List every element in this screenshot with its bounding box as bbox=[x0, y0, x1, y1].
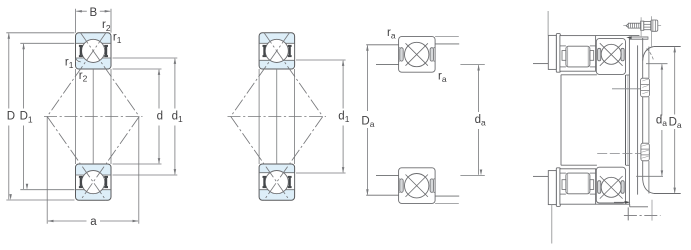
housing bore line top-right bbox=[435, 36, 459, 38]
cover spigot step bottom bbox=[629, 204, 631, 207]
lock nut bbox=[651, 20, 658, 31]
set screw thread tip bbox=[626, 24, 628, 28]
inner ring shoulder line top bbox=[259, 59, 295, 61]
inner ring recess arc (r2) top-left bbox=[76, 58, 81, 62]
shaft surface bottom bbox=[561, 164, 597, 166]
housing shoulder line top-right bbox=[435, 43, 459, 45]
dimension da extension lines bbox=[460, 64, 484, 66]
locating ring inner bottom bbox=[556, 168, 560, 207]
contact line left vertex to lower-right bbox=[231, 117, 290, 201]
inner ring shoulder line bottom bbox=[259, 172, 295, 174]
housing fillet arc bottom bbox=[643, 180, 654, 194]
svg-text:ra: ra bbox=[387, 27, 396, 41]
locating ring inner top bbox=[556, 34, 560, 73]
shaft shoulder line bottom-left bbox=[376, 174, 399, 176]
tapped hole centre line horizontal bbox=[624, 214, 661, 216]
dimension d1 extension lines bbox=[113, 57, 178, 59]
set screw head bbox=[644, 22, 651, 30]
housing face line bottom-left margin bbox=[533, 175, 549, 177]
cage capsule bottom-left bbox=[400, 179, 403, 192]
housing bore line bottom-right bbox=[435, 202, 459, 204]
outer ring shoulder line top bbox=[259, 42, 295, 44]
dimension da line with arrows bbox=[478, 65, 480, 112]
roller cage bars bottom bbox=[562, 180, 566, 190]
dimension d extension lines bbox=[113, 68, 162, 70]
slot arrow bottom bbox=[614, 201, 627, 203]
dimension a extension line right bbox=[138, 117, 140, 224]
contact line right vertex to lower-left bbox=[264, 117, 323, 201]
housing shoulder line bottom-right bbox=[435, 195, 459, 197]
dimension B line with arrows bbox=[76, 10, 87, 12]
set screw axis horizontal bbox=[623, 25, 661, 27]
dimension d1 line with arrows bbox=[174, 59, 176, 109]
cage capsule top-right bbox=[430, 48, 433, 61]
dimension d line with arrows bbox=[158, 70, 160, 109]
svg-text:d: d bbox=[157, 110, 163, 122]
bore silhouette line left bbox=[258, 69, 260, 164]
cage bottom-right bbox=[104, 176, 108, 188]
washer tab line top bbox=[547, 11, 549, 35]
raceway groove band top section bbox=[260, 43, 295, 60]
bore silhouette line right bbox=[294, 69, 296, 164]
dimension D line with arrows bbox=[8, 34, 10, 109]
svg-text:d1: d1 bbox=[338, 110, 349, 124]
inner ring split line bbox=[276, 69, 278, 164]
housing shoulder line top-left bbox=[366, 44, 398, 46]
set screw shank bbox=[628, 23, 640, 28]
outer ring top section (blue) bbox=[76, 33, 112, 69]
cage capsule top-left bbox=[400, 48, 403, 61]
cage top-right bbox=[104, 45, 108, 57]
cage bottom-left bbox=[79, 176, 83, 188]
housing bore line top bbox=[596, 35, 640, 37]
QJ cage capsules top bbox=[598, 48, 601, 61]
svg-text:r2: r2 bbox=[79, 70, 88, 84]
figure 1: bearing cross-section with dimensions bbox=[6, 7, 183, 228]
dimension B extension lines bbox=[75, 9, 77, 33]
cover mid wall upper bbox=[642, 38, 644, 78]
washer tab line bottom bbox=[551, 205, 553, 244]
inner ring split line bbox=[92, 69, 94, 164]
svg-text:d1: d1 bbox=[172, 110, 183, 124]
roller top bbox=[566, 46, 590, 67]
ball top with cross bbox=[406, 43, 428, 65]
dimension Da line with arrows bbox=[366, 46, 368, 112]
outer ring shoulder line top bbox=[76, 42, 112, 44]
da extension line bottom bbox=[636, 175, 663, 177]
roller end face lines bottom bbox=[567, 174, 569, 194]
shoulder ticks bottom section bbox=[399, 178, 400, 180]
clamp nut lower bbox=[641, 143, 649, 161]
roller bearing outline top bbox=[560, 36, 596, 72]
cage capsule bottom-right bbox=[430, 179, 433, 192]
da extension line top bbox=[646, 63, 668, 65]
set screw axis line upper bbox=[612, 88, 641, 90]
cover outer wall lower bbox=[648, 161, 650, 194]
cage bottom-left bbox=[263, 176, 267, 188]
cover inner face bbox=[637, 45, 639, 194]
contact line upper-left to left vertex bbox=[47, 33, 106, 117]
set screw axis line lower bbox=[597, 153, 650, 155]
ball top bbox=[82, 39, 105, 62]
dimension D1 extension lines bbox=[20, 42, 74, 44]
svg-text:ra: ra bbox=[438, 71, 447, 85]
raceway groove band bottom section bbox=[260, 173, 295, 190]
housing end face bottom (Da extension) bbox=[654, 193, 681, 195]
cover mid wall centre bbox=[642, 97, 644, 143]
QJ bearing bottom section outline bbox=[596, 167, 625, 203]
set screw flange washer bbox=[641, 21, 644, 30]
svg-text:r1: r1 bbox=[65, 56, 74, 70]
dimension da line with arrows bbox=[661, 64, 663, 115]
roller band lines bottom bbox=[560, 172, 566, 174]
cage top-left bbox=[79, 45, 83, 57]
screw axis line right bbox=[650, 16, 652, 46]
horizontal centre axis line bbox=[228, 116, 327, 118]
cage top-right bbox=[288, 45, 292, 57]
screw axis line left bbox=[640, 17, 642, 36]
cage top-left bbox=[263, 45, 267, 57]
raceway groove band bottom section bbox=[76, 175, 111, 190]
outer ring bottom section (blue) bbox=[259, 164, 295, 200]
cover outer wall upper bbox=[648, 47, 650, 79]
outer ring shoulder line bottom bbox=[76, 189, 112, 191]
ball bottom bbox=[82, 171, 105, 194]
svg-text:Da: Da bbox=[361, 115, 374, 129]
shaft end face bbox=[560, 75, 562, 165]
dimension D1 line with arrows bbox=[23, 44, 25, 109]
svg-text:r1: r1 bbox=[113, 31, 122, 45]
svg-text:B: B bbox=[89, 7, 97, 19]
housing bore line bottom bbox=[596, 203, 630, 205]
svg-text:da: da bbox=[475, 114, 486, 128]
bore silhouette line right bbox=[110, 69, 112, 164]
roller band lines top bbox=[560, 45, 566, 47]
QJ ball top with cross bbox=[600, 43, 623, 66]
roller end face lines top bbox=[567, 47, 569, 67]
cover spigot face bbox=[625, 75, 627, 165]
figure 3: abutment dimensions ra Da da bbox=[361, 27, 486, 203]
contact line right vertex to lower-left bbox=[81, 117, 140, 201]
svg-text:Da: Da bbox=[669, 117, 682, 131]
cover spigot band top bbox=[629, 37, 648, 39]
cover spigot line bottom bbox=[630, 206, 648, 208]
shoulder ticks top section bbox=[399, 47, 400, 49]
cage bottom-right bbox=[288, 176, 292, 188]
dimension d1 extension lines bbox=[296, 59, 346, 61]
roller bottom bbox=[566, 173, 590, 194]
housing face line top-left margin bbox=[533, 63, 549, 65]
outer ring shoulder line bottom bbox=[259, 189, 295, 191]
locating ring outer bottom bbox=[548, 171, 556, 205]
contact line upper-right to right vertex bbox=[81, 33, 140, 117]
bearing bottom section outline bbox=[399, 168, 436, 204]
inner ring shoulder line top bbox=[76, 57, 112, 59]
dimension d1 line with arrows bbox=[342, 61, 344, 109]
locating ring outer top bbox=[548, 35, 556, 69]
cover mid wall lower bbox=[642, 161, 644, 180]
cover spigot steps bbox=[626, 74, 630, 76]
raceway groove band top section (white strip) bbox=[76, 43, 111, 58]
dimension Da line with arrows bbox=[674, 47, 676, 114]
svg-text:D1: D1 bbox=[20, 111, 33, 125]
dimension a extension line left bbox=[46, 117, 48, 224]
tapped hole edge bottom bbox=[627, 207, 629, 220]
shaft shoulder line top-left bbox=[376, 64, 399, 66]
QJ bearing top section outline bbox=[596, 39, 625, 75]
roller cage bars top bbox=[562, 51, 566, 61]
ball bottom with cross bbox=[406, 175, 428, 197]
dimension a line with arrows bbox=[48, 220, 87, 222]
housing fillet arc top bbox=[643, 47, 654, 61]
inner ring shoulder line bottom bbox=[76, 174, 112, 176]
horizontal centre axis line bbox=[44, 116, 143, 118]
contact line upper-left to left vertex bbox=[231, 33, 290, 117]
svg-text:a: a bbox=[90, 216, 97, 228]
shaft surface top bbox=[561, 74, 597, 76]
tapped hole centre line vertical bbox=[651, 200, 653, 221]
figure 2: bearing cross-section with contact diamond and d1 bbox=[228, 33, 350, 200]
QJ ball bottom with cross bbox=[600, 176, 623, 199]
contact line upper-right to right vertex bbox=[264, 33, 323, 117]
housing shoulder line bottom-left bbox=[366, 194, 398, 196]
bore silhouette line left bbox=[75, 69, 77, 164]
slot arrow top bbox=[626, 36, 631, 39]
cover outer wall centre bbox=[648, 97, 650, 143]
clamp nut upper bbox=[641, 78, 650, 97]
hidden slot arc bbox=[647, 49, 654, 61]
ball bottom bbox=[265, 171, 288, 194]
housing end face top (Da extension) bbox=[654, 46, 681, 48]
roller bearing outline bottom bbox=[560, 169, 596, 204]
contact line left vertex to lower-right bbox=[47, 117, 106, 201]
svg-text:da: da bbox=[656, 114, 667, 128]
svg-text:r2: r2 bbox=[102, 19, 111, 33]
bearing top section outline bbox=[399, 37, 436, 73]
QJ cage capsules bottom bbox=[598, 181, 601, 194]
figure 4: mounting arrangement with locating slots bbox=[533, 11, 682, 244]
ball top bbox=[265, 39, 288, 62]
dimension D extension lines bbox=[6, 32, 74, 34]
outer ring top section (blue) bbox=[259, 33, 295, 69]
svg-text:D: D bbox=[7, 111, 15, 123]
cover spigot edge bbox=[628, 39, 630, 204]
outer ring bottom section (blue) bbox=[76, 164, 112, 200]
